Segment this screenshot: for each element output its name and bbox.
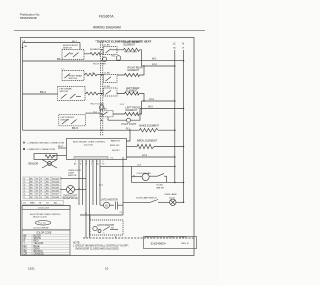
wiring diagram title xyxy=(93,26,121,30)
part number box xyxy=(144,236,197,249)
wire BK-1 L1 feed row1 xyxy=(23,60,101,62)
wire L2 bus vertical xyxy=(174,50,176,182)
wire color chart table xyxy=(23,177,61,199)
switch oven door light xyxy=(68,170,81,177)
wire sensor to EOC xyxy=(52,155,67,157)
node L1 tick row2 xyxy=(62,68,64,70)
switch SW2 right rear surface (dashed box) xyxy=(102,73,117,83)
switch door lamp switch xyxy=(123,197,170,203)
switch right front console switch (dashed box) xyxy=(62,45,84,59)
resistor right rear console element link xyxy=(84,73,104,76)
lamp pilot light row1 left xyxy=(93,57,107,66)
wire pilot return to N xyxy=(103,60,184,62)
wire row4 element rise xyxy=(139,101,141,114)
connector P-1 pin numbers xyxy=(74,161,105,165)
connector P-1 harness column xyxy=(100,42,102,136)
outer border xyxy=(21,38,195,256)
switch left front console switch (dashed box) xyxy=(59,114,86,125)
junction dots on harness xyxy=(101,49,102,50)
lamp pilot light 1 xyxy=(112,51,138,60)
node CL label xyxy=(120,212,124,214)
wire chassis dashed separator xyxy=(83,237,194,239)
lamp pilot light row34 left xyxy=(90,103,104,113)
oven sensor assembly xyxy=(28,154,57,169)
wire N bus vertical xyxy=(183,50,185,202)
resistor left rear console element link xyxy=(85,92,104,95)
legend wire nut note xyxy=(23,148,55,151)
resistor broil element xyxy=(137,138,158,148)
switch SW1 right front surface (dashed box) xyxy=(102,44,117,54)
wire left pilot row xyxy=(85,112,100,114)
resistor right front element xyxy=(117,41,141,51)
resistor bake element xyxy=(140,123,160,132)
op-amp EOC electronic oven control box xyxy=(67,139,127,160)
switch left rear console switch (dashed box) xyxy=(58,87,86,101)
resistor left rear element xyxy=(117,87,140,95)
wire BK-5 L1 feed bake xyxy=(23,129,140,131)
motor cooling fan xyxy=(132,166,152,182)
wire broil to N xyxy=(154,146,184,148)
model number text xyxy=(99,15,114,19)
wire fan drop xyxy=(122,157,124,215)
lamp pilot light 2 xyxy=(108,117,137,126)
switch right rear console switch (dashed box) xyxy=(62,71,84,81)
wire shared L2-1 feed xyxy=(142,65,175,67)
switch SW3 left rear surface (dashed box) xyxy=(102,86,117,96)
note text xyxy=(73,243,130,251)
wire A link xyxy=(80,214,123,216)
wire bake to L2 xyxy=(158,129,175,131)
lamp oven light xyxy=(60,186,86,200)
resistor left front element xyxy=(113,107,141,116)
resistor right front console element link xyxy=(84,49,104,55)
node N label xyxy=(182,43,184,50)
connector P-2 label xyxy=(96,41,99,43)
switch SW4 left front surface (dashed box) xyxy=(99,104,125,117)
wire bake relay xyxy=(127,130,131,141)
lamp oven lamp xyxy=(164,193,184,205)
page number left xyxy=(28,267,35,271)
resistor right rear element xyxy=(117,66,143,76)
wire EOC L2 pin feed xyxy=(100,165,175,167)
wire L2-4 relay feed xyxy=(127,156,175,158)
wire L1 bus vertical xyxy=(22,43,24,130)
legend chassis ground note xyxy=(23,141,65,145)
connector P-1 ribbon wires xyxy=(79,160,100,239)
page number center xyxy=(105,267,109,271)
wire BK-1a top feed xyxy=(23,42,81,44)
section title surface elements xyxy=(97,39,151,43)
wire row1 element drop xyxy=(140,50,142,66)
switch fan switch xyxy=(149,174,166,190)
wire L1-2 stub xyxy=(58,147,67,149)
wire BK-2 L1 feed row3 xyxy=(23,93,58,95)
color code legend box xyxy=(22,230,70,256)
motor latch motor xyxy=(100,199,123,210)
wire A drop into latch box xyxy=(89,215,91,220)
node L2 label xyxy=(173,43,177,50)
wire door light switch xyxy=(60,177,86,179)
switch latch switch assembly xyxy=(90,220,123,235)
wire fan lower to buses xyxy=(132,181,184,183)
EOC pinout box xyxy=(22,206,70,230)
wire row3 element drop xyxy=(139,94,144,102)
publication number text xyxy=(20,13,40,21)
wire chart totals strip xyxy=(22,201,64,205)
wire broil relay xyxy=(127,146,138,148)
wire pilot2 return to N xyxy=(131,109,184,121)
node L1 label xyxy=(23,40,26,43)
header rule xyxy=(14,30,205,32)
wire shared L2-2 feed xyxy=(142,100,175,102)
wire row2 element rise xyxy=(140,66,144,75)
